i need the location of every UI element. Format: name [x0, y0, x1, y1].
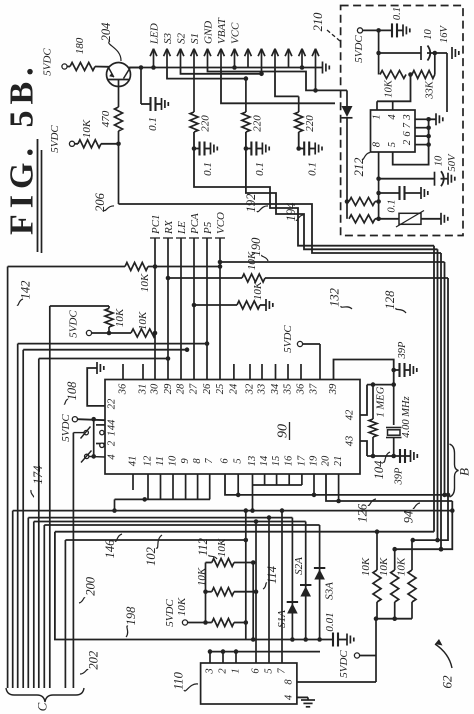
- bundle vertical v448 to 10K trio: [413, 278, 448, 540]
- capacitor 10 50V: [379, 178, 435, 180]
- svg-text:16V: 16V: [439, 24, 450, 43]
- svg-text:132: 132: [328, 288, 342, 307]
- svg-text:PCA: PCA: [189, 213, 201, 235]
- svg-text:20: 20: [321, 455, 332, 466]
- resistor 470: [118, 87, 120, 107]
- svg-text:10K: 10K: [81, 119, 93, 138]
- junction LED: [151, 65, 156, 70]
- wire LE vertical: [180, 238, 182, 380]
- svg-text:202: 202: [87, 651, 101, 670]
- svg-text:10: 10: [434, 155, 445, 166]
- wire maze upper-left L358: [39, 358, 168, 360]
- svg-text:212: 212: [352, 158, 366, 177]
- svg-text:5VDC: 5VDC: [42, 48, 54, 76]
- svg-text:5VDC: 5VDC: [282, 325, 294, 353]
- svg-text:14: 14: [259, 455, 270, 466]
- maze line L6: [65, 539, 245, 541]
- svg-text:S2A: S2A: [293, 557, 305, 575]
- svg-text:10K: 10K: [252, 281, 264, 300]
- svg-text:0.1: 0.1: [254, 162, 266, 176]
- svg-text:VCC: VCC: [230, 22, 242, 44]
- svg-text:62: 62: [440, 675, 455, 689]
- pin2 stub: [96, 443, 105, 445]
- svg-text:25: 25: [215, 384, 226, 395]
- svg-text:1: 1: [372, 114, 383, 119]
- pin6 line: [225, 474, 448, 495]
- svg-text:6: 6: [220, 458, 231, 464]
- pullup cluster 5VDC 10K 10K: [86, 330, 91, 335]
- pin21 stub: [338, 474, 340, 501]
- resistor 10K b: [212, 588, 234, 596]
- capacitor 0.1 top: [391, 23, 393, 37]
- svg-text:194: 194: [284, 203, 298, 222]
- wire maze upper-left L343: [18, 343, 207, 345]
- svg-text:2: 2: [402, 139, 413, 145]
- svg-text:16: 16: [284, 455, 295, 466]
- capacitor 0.1 lower: [379, 192, 400, 194]
- diode D1 into box: [346, 90, 348, 106]
- svg-text:10K: 10K: [246, 251, 258, 270]
- bundle vertical v434: [433, 246, 435, 532]
- resistor 10K r1: [376, 532, 378, 570]
- regulator IC 212: [371, 110, 416, 152]
- maze line L4: [44, 524, 319, 526]
- ground at pin3: [435, 113, 437, 125]
- capacitor 39P upper: [391, 368, 396, 373]
- svg-text:S3: S3: [162, 33, 174, 45]
- wire 10K to base node: [101, 143, 119, 145]
- svg-text:30: 30: [150, 383, 161, 395]
- svg-text:104: 104: [372, 461, 386, 480]
- svg-text:VBAT: VBAT: [216, 17, 228, 44]
- connector arrow VCC: [234, 49, 236, 68]
- wire 206 vertical: [118, 131, 120, 204]
- ground: [261, 143, 263, 155]
- svg-text:146: 146: [103, 539, 117, 559]
- svg-text:206: 206: [93, 192, 107, 212]
- svg-text:220: 220: [304, 115, 316, 132]
- pin5 IC110 rise: [268, 518, 270, 663]
- svg-text:4.00 MHz: 4.00 MHz: [401, 396, 412, 437]
- connector arrow GND: [207, 49, 209, 68]
- connector arrow S1: [193, 49, 195, 68]
- svg-text:35: 35: [283, 384, 294, 396]
- svg-text:10K: 10K: [176, 597, 188, 616]
- junctions on bus: [290, 637, 295, 642]
- pin4 ground: [297, 696, 308, 698]
- svg-text:13: 13: [247, 456, 258, 467]
- svg-text:2: 2: [107, 440, 118, 446]
- capacitor 0.1 at transistor bus: [139, 65, 144, 70]
- junction arrow13 on GND line: [315, 68, 317, 91]
- maze line L3: [34, 521, 306, 523]
- v252 to L1: [252, 485, 254, 511]
- svg-text:5VDC: 5VDC: [68, 310, 80, 338]
- resistor 10K a: [212, 559, 234, 567]
- svg-text:17: 17: [296, 455, 307, 466]
- svg-text:LED: LED: [149, 23, 161, 45]
- svg-text:10K: 10K: [360, 557, 372, 576]
- v245 from L1 to bus: [245, 511, 247, 640]
- resistor Rb: [349, 215, 375, 223]
- switch S2 to pin4: [85, 454, 89, 458]
- svg-text:0.1: 0.1: [147, 117, 159, 131]
- wire RX pull 10K to bundle: [166, 276, 171, 281]
- diode S1A: [291, 518, 293, 640]
- svg-text:GND: GND: [203, 21, 215, 44]
- svg-text:10K: 10K: [216, 538, 228, 557]
- svg-text:1: 1: [231, 668, 242, 673]
- resistor 10K: [75, 143, 78, 145]
- svg-text:9: 9: [180, 458, 191, 464]
- wire GND staircase to diode: [208, 68, 348, 91]
- dashed box 210: [341, 6, 463, 236]
- brace C: [6, 688, 84, 702]
- pin 32 top stub: [249, 364, 251, 380]
- left rail: [205, 563, 207, 623]
- svg-text:12: 12: [143, 455, 154, 466]
- svg-text:P5: P5: [202, 221, 214, 235]
- resistor 1 MEG: [372, 385, 374, 419]
- svg-text:50V: 50V: [447, 153, 458, 172]
- svg-text:0.1: 0.1: [392, 7, 403, 20]
- svg-text:7: 7: [204, 458, 215, 464]
- svg-text:22: 22: [107, 398, 118, 409]
- capacitor 0.1: [299, 148, 305, 150]
- wire P5 vertical: [206, 238, 208, 380]
- svg-text:8: 8: [192, 458, 203, 464]
- connector arrow 13: [315, 49, 317, 68]
- pin44 stub: [96, 424, 105, 426]
- ground: [210, 143, 212, 155]
- svg-text:24: 24: [228, 383, 239, 394]
- junction arrow7: [232, 65, 237, 70]
- svg-text:174: 174: [31, 466, 45, 485]
- svg-text:180: 180: [74, 37, 86, 54]
- svg-text:4: 4: [284, 694, 295, 700]
- resistor Ra: [345, 199, 350, 204]
- svg-text:142: 142: [19, 281, 33, 300]
- svg-text:29: 29: [163, 383, 174, 394]
- svg-text:RX: RX: [163, 219, 175, 235]
- wire 142 horizontal with 10K: [8, 266, 125, 268]
- svg-text:3: 3: [402, 114, 413, 120]
- svg-text:5: 5: [387, 142, 398, 147]
- svg-text:34: 34: [270, 383, 281, 395]
- svg-text:8: 8: [284, 679, 295, 685]
- svg-text:90: 90: [276, 424, 291, 438]
- svg-text:204: 204: [99, 23, 113, 42]
- resistor 10K r3: [411, 540, 413, 570]
- diode S3A: [319, 525, 321, 640]
- ground: [314, 143, 316, 155]
- wire to cap node: [193, 132, 195, 149]
- svg-text:108: 108: [65, 381, 79, 401]
- svg-text:4: 4: [387, 114, 398, 120]
- resistor 10K horizontal: [131, 329, 156, 337]
- switch contact pin2: [100, 443, 104, 447]
- resistor 220: [193, 68, 195, 113]
- power terminal 5VDC bottom: [354, 653, 359, 658]
- pin41 stub: [132, 474, 134, 490]
- svg-text:5: 5: [264, 668, 275, 673]
- resistor 220: [245, 79, 247, 112]
- pin 36 top stub: [300, 364, 302, 380]
- wire VBAT stub line: [221, 68, 335, 104]
- title underline: [37, 139, 39, 252]
- svg-text:10K: 10K: [114, 308, 126, 327]
- svg-text:43: 43: [345, 436, 356, 447]
- wire S3 to 220 column B: [167, 68, 246, 79]
- power terminal 5VDC in box: [357, 28, 362, 33]
- pin43 wire: [360, 441, 367, 456]
- svg-text:128: 128: [383, 290, 397, 310]
- bundle vertical v75 from switch: [72, 433, 74, 688]
- connector arrow 10: [274, 49, 276, 68]
- svg-text:0.1: 0.1: [307, 162, 319, 176]
- connector arrow 12: [301, 49, 303, 68]
- svg-text:10K: 10K: [396, 557, 408, 576]
- svg-text:19: 19: [309, 455, 320, 466]
- svg-text:42: 42: [345, 409, 356, 420]
- svg-text:0.01: 0.01: [324, 612, 336, 631]
- pin 24 top stub: [233, 364, 235, 380]
- svg-text:220: 220: [200, 115, 212, 132]
- switch S1 to pin1: [84, 430, 88, 434]
- svg-text:5: 5: [233, 458, 244, 463]
- connector arrow 9: [261, 49, 263, 68]
- v114 to L1: [114, 499, 116, 510]
- svg-text:94: 94: [401, 511, 415, 524]
- crystal 4.00 MHz: [393, 385, 395, 425]
- v452 down to 549 rail: [395, 501, 453, 549]
- svg-text:110: 110: [172, 671, 186, 690]
- svg-text:102: 102: [144, 547, 158, 566]
- capacitor 39P lower: [399, 449, 401, 463]
- resistor 10K vertical: [108, 327, 110, 333]
- capacitor 0.1: [194, 148, 200, 150]
- pin7 IC110 rise: [281, 511, 283, 663]
- wire 206 run to right bundle: [119, 204, 442, 253]
- svg-text:33K: 33K: [425, 80, 436, 100]
- svg-text:112: 112: [196, 538, 210, 556]
- v376 rail: [375, 619, 377, 682]
- v54 corner to long bus: [55, 532, 333, 640]
- bottom tie: [376, 602, 378, 619]
- junction arrow12: [300, 65, 305, 70]
- wire to cap node: [245, 132, 247, 149]
- svg-text:210: 210: [311, 12, 325, 32]
- svg-text:5VDC: 5VDC: [49, 125, 61, 153]
- v253 rail: [252, 563, 254, 640]
- bottom node: [367, 455, 405, 457]
- svg-text:VCO: VCO: [215, 212, 227, 234]
- svg-text:192: 192: [244, 194, 258, 213]
- svg-text:10: 10: [423, 29, 434, 40]
- svg-text:39: 39: [328, 383, 339, 395]
- pin5 stub: [237, 474, 239, 495]
- svg-text:6: 6: [402, 131, 413, 137]
- svg-text:0.1: 0.1: [387, 199, 398, 212]
- resistor 33K: [412, 71, 435, 79]
- svg-text:126: 126: [355, 503, 369, 523]
- svg-text:5VDC: 5VDC: [60, 414, 72, 442]
- resistor 180: [67, 66, 70, 68]
- svg-text:31: 31: [138, 384, 149, 396]
- svg-text:200: 200: [84, 576, 98, 596]
- wire arrow10 to 220 column C: [275, 68, 299, 97]
- node base junction: [116, 142, 121, 147]
- svg-text:0.1: 0.1: [202, 162, 214, 176]
- IC U90 body: [105, 380, 360, 475]
- label B brace: [450, 444, 459, 497]
- svg-text:S1: S1: [189, 33, 201, 44]
- pins 12-7 bus: [115, 498, 211, 500]
- wire PCA vertical: [193, 238, 195, 380]
- svg-text:10K: 10K: [384, 79, 395, 98]
- capacitor 0.1: [246, 148, 252, 150]
- bundle vertical v7: [7, 267, 9, 689]
- resistor 10K c: [212, 619, 234, 627]
- svg-text:5VDC: 5VDC: [353, 35, 365, 63]
- maze line L5: [55, 531, 434, 533]
- pin6 IC110 rise: [255, 522, 257, 664]
- IC212 right pin stubs to rail: [415, 118, 429, 120]
- svg-text:S2: S2: [176, 33, 188, 45]
- resistor 10K to ground: [192, 303, 197, 308]
- pin 31 top stub: [142, 364, 144, 380]
- connector arrow 11: [288, 49, 290, 68]
- connector arrow S3: [166, 49, 168, 68]
- crystal network top node: [367, 384, 394, 386]
- rail down and under IC to pin5: [393, 119, 429, 164]
- bundle vertical v437: [437, 249, 439, 540]
- svg-text:2: 2: [218, 668, 229, 674]
- svg-text:1: 1: [107, 431, 118, 436]
- wire to cap node: [298, 132, 300, 149]
- diode S2A: [305, 522, 307, 640]
- svg-text:8: 8: [372, 141, 383, 147]
- wire maze upper-left L349: [23, 349, 187, 351]
- wire PC1 vertical: [154, 238, 156, 380]
- svg-text:C: C: [35, 702, 50, 711]
- svg-text:10K: 10K: [378, 557, 390, 576]
- wire 192 staircase from column A: [194, 149, 434, 246]
- svg-text:21: 21: [333, 456, 344, 467]
- svg-text:33: 33: [257, 384, 268, 396]
- pin 34 top stub: [275, 364, 277, 380]
- connector arrow S2: [180, 49, 182, 68]
- wire to cap 10/16V node: [378, 30, 380, 74]
- wire RX vertical: [167, 238, 169, 380]
- junction: [376, 28, 381, 33]
- svg-text:114: 114: [265, 566, 279, 584]
- transistor 204: [107, 63, 131, 87]
- svg-text:44: 44: [107, 419, 118, 430]
- svg-text:220: 220: [251, 115, 263, 132]
- connector arrow VBAT: [220, 49, 222, 68]
- capacitor 0.01 on bus: [332, 633, 334, 647]
- connector arrow LED: [153, 49, 155, 68]
- wire 194 staircase from column B: [246, 149, 438, 250]
- resistor 10K r2: [394, 549, 396, 570]
- svg-text:B: B: [457, 468, 472, 476]
- svg-text:41: 41: [128, 456, 139, 467]
- ground bus1: [322, 62, 324, 74]
- power terminal 5VDC (10K feed): [69, 141, 74, 146]
- svg-text:15: 15: [271, 456, 282, 467]
- svg-text:4: 4: [107, 454, 118, 460]
- resistor 10K in box: [380, 71, 406, 79]
- svg-text:26: 26: [202, 383, 213, 394]
- maze line L1: [13, 510, 453, 512]
- power terminal 5VDC (180 resistor feed): [62, 64, 67, 69]
- pin 36 top stub: [122, 364, 124, 380]
- svg-text:7: 7: [402, 122, 413, 128]
- resistor 220: [298, 96, 300, 112]
- bus1 wire collector row: [129, 67, 323, 69]
- bundle vertical v444: [444, 262, 446, 495]
- maze line L2: [28, 517, 292, 519]
- pin8 wire IC110: [297, 681, 376, 683]
- svg-text:32: 32: [245, 383, 256, 395]
- svg-text:S3A: S3A: [324, 582, 336, 600]
- svg-text:198: 198: [124, 606, 138, 626]
- svg-text:39P: 39P: [397, 341, 408, 360]
- svg-text:7: 7: [277, 668, 288, 674]
- ground: [451, 47, 453, 59]
- IC U110 body: [201, 663, 297, 704]
- svg-text:S1A: S1A: [276, 610, 288, 628]
- pin19 stub: [313, 474, 315, 495]
- svg-text:470: 470: [100, 110, 112, 127]
- wire 190 from VCO: [218, 260, 223, 265]
- power terminal 5VDC trio: [182, 620, 187, 625]
- connector arrow 8: [247, 49, 249, 68]
- svg-text:PC1: PC1: [150, 214, 162, 235]
- wire base-left: [95, 66, 110, 68]
- varistor: [379, 218, 399, 220]
- power terminal 5VDC switches: [72, 417, 77, 422]
- 5VDC to pin37: [297, 341, 302, 346]
- svg-text:1 MEG: 1 MEG: [376, 386, 387, 417]
- pin 35 top stub: [287, 364, 289, 380]
- IC110 top pin bus: [209, 651, 320, 653]
- pin42 wire: [360, 385, 367, 415]
- svg-text:37: 37: [309, 383, 320, 395]
- bundle vertical v441: [440, 253, 442, 549]
- svg-text:5VDC: 5VDC: [338, 650, 350, 678]
- ground at pin22: [87, 368, 105, 406]
- svg-text:6: 6: [251, 668, 262, 674]
- svg-text:36: 36: [118, 383, 129, 395]
- pin8 rail down: [378, 152, 380, 219]
- svg-text:11: 11: [155, 456, 166, 466]
- pins 13-17 bus: [253, 484, 302, 486]
- svg-text:LE: LE: [176, 221, 188, 235]
- svg-text:27: 27: [189, 383, 200, 394]
- svg-text:39P: 39P: [394, 467, 405, 486]
- wire maze L306: [50, 305, 109, 307]
- svg-text:3: 3: [205, 668, 216, 674]
- pin39 wire to crystal: [334, 360, 394, 385]
- wire S2 to arrow9: [181, 68, 262, 74]
- svg-text:10K: 10K: [137, 311, 149, 330]
- svg-text:36: 36: [296, 383, 307, 395]
- pin20 line: [326, 474, 452, 501]
- svg-text:FIG. 5B.: FIG. 5B.: [4, 61, 41, 235]
- svg-text:10K: 10K: [139, 273, 151, 292]
